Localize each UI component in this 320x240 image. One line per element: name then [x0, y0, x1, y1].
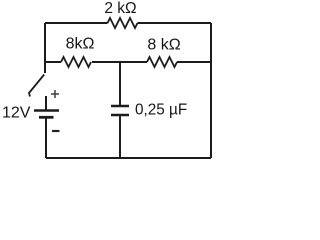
wire top-left segment	[45, 22, 108, 24]
resistor 8 kΩ right	[147, 57, 177, 67]
svg-text:8 kΩ: 8 kΩ	[147, 37, 180, 54]
capacitor C1 0,25 µF plates	[111, 106, 129, 115]
wire middle branch lower (capacitor to bottom)	[119, 116, 121, 158]
battery B1 12V plates	[34, 111, 59, 118]
svg-text:0,25 µF: 0,25 µF	[135, 101, 187, 118]
wire right side	[210, 23, 212, 158]
svg-text:8kΩ: 8kΩ	[66, 36, 95, 53]
wire bottom	[46, 157, 211, 159]
wire left upper (top corner down to switch)	[44, 23, 46, 73]
wire second-row left segment	[45, 61, 61, 63]
label 12V (source value)	[2, 105, 31, 122]
wire second-row middle segment	[92, 61, 147, 63]
svg-text:12V: 12V	[2, 105, 31, 122]
resistor 2 kΩ	[108, 18, 138, 28]
wire top-right segment	[138, 22, 212, 24]
label 2 kΩ	[104, 0, 136, 17]
wire battery bottom stub to bottom wire	[45, 119, 47, 159]
resistor 8kΩ left	[61, 57, 91, 67]
switch S (open blade)	[29, 75, 44, 97]
battery polarity + sign	[51, 90, 59, 98]
wire second-row right segment	[177, 61, 211, 63]
svg-text:2 kΩ: 2 kΩ	[104, 0, 136, 17]
label 8kΩ (left resistor)	[66, 36, 95, 53]
wire battery top stub	[45, 96, 47, 110]
wire middle branch upper (node to capacitor)	[119, 62, 121, 105]
label 0,25 µF (capacitor value)	[135, 101, 187, 118]
battery polarity − sign	[52, 130, 60, 132]
label 8 kΩ (right resistor)	[147, 37, 180, 54]
